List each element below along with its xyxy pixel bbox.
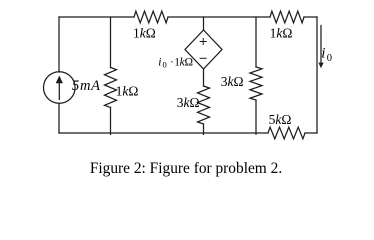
label 3kOhm middle xyxy=(177,95,200,110)
label 1kOhm top-left xyxy=(133,25,156,40)
dependent voltage source U1 i0*1k xyxy=(185,30,222,69)
resistor R4 1k top-right xyxy=(270,11,304,23)
label 5kOhm xyxy=(269,112,292,127)
label i0 right xyxy=(321,46,332,65)
svg-text:Figure 2: Figure for problem 2: Figure 2: Figure for problem 2. xyxy=(90,160,282,177)
svg-text:3kΩ: 3kΩ xyxy=(221,74,244,89)
resistor R6 3k right vertical xyxy=(250,67,262,100)
caption Figure 2 xyxy=(90,160,282,177)
resistor R1 1k top-left xyxy=(134,11,168,23)
wire left xyxy=(58,17,60,133)
resistor R2 1k left vertical xyxy=(105,68,117,108)
label 1kOhm top-right xyxy=(270,25,293,40)
svg-text:0: 0 xyxy=(327,53,332,64)
label 3kOhm right xyxy=(221,74,244,89)
label 5mA xyxy=(72,78,101,94)
wire branch dependent source xyxy=(203,17,205,134)
label i0*1kOhm xyxy=(158,56,193,69)
svg-text:1kΩ: 1kΩ xyxy=(174,56,193,68)
svg-text:5mA: 5mA xyxy=(72,78,101,94)
resistor R5 5k bottom xyxy=(268,127,305,139)
plus sign xyxy=(200,39,206,45)
current source I1 5mA xyxy=(44,72,76,104)
wire right xyxy=(316,17,318,133)
minus sign xyxy=(200,57,206,59)
svg-text:5kΩ: 5kΩ xyxy=(269,112,292,127)
svg-text:3kΩ: 3kΩ xyxy=(177,95,200,110)
label 1kOhm left branch xyxy=(116,84,139,99)
svg-text:1kΩ: 1kΩ xyxy=(133,25,156,40)
svg-text:1kΩ: 1kΩ xyxy=(116,84,139,99)
wire bottom xyxy=(59,132,317,134)
current arrow i0 xyxy=(318,26,323,69)
wire branch left 1k xyxy=(110,17,112,134)
svg-text:1kΩ: 1kΩ xyxy=(270,25,293,40)
svg-text:i: i xyxy=(321,46,325,62)
svg-text:i: i xyxy=(158,56,161,68)
svg-text:0: 0 xyxy=(163,60,167,70)
resistor R3 3k middle vertical xyxy=(198,86,210,124)
wire branch right 3k xyxy=(255,17,257,134)
wire top xyxy=(59,16,317,18)
